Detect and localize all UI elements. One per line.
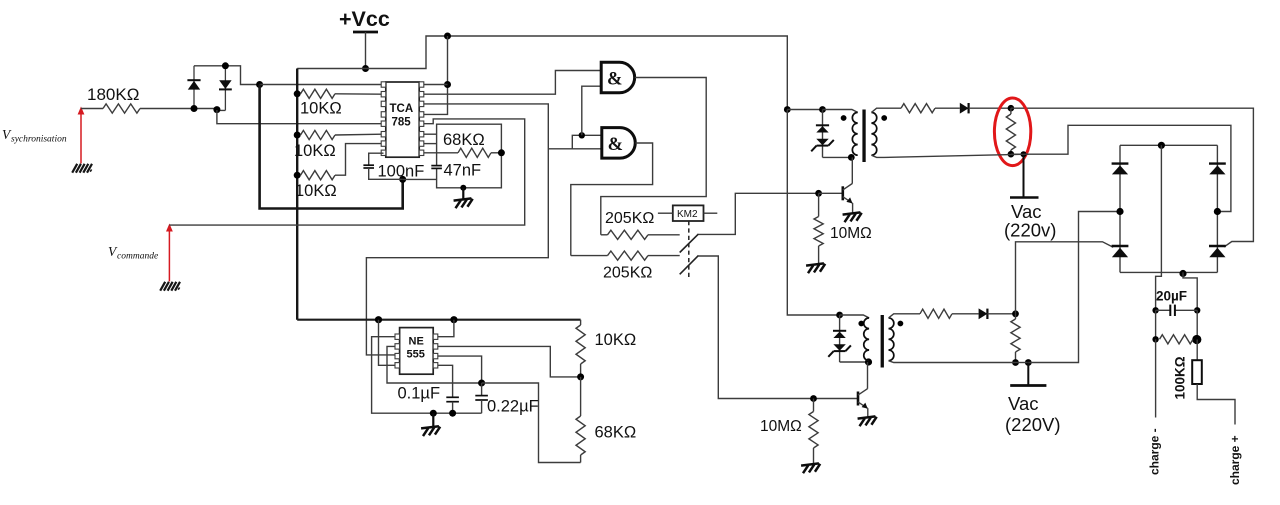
svg-text:KM2: KM2 [677,209,698,220]
wire Vsync to R 180K [81,108,103,110]
svg-text:10MΩ: 10MΩ [830,225,872,242]
node T2 primary top [836,312,843,319]
wire Vcc to TCA pins 1+4 [424,36,448,114]
power +Vcc bar [353,31,378,34]
wire 205K upper leads [601,234,680,236]
wire Vac2 node [1016,362,1029,364]
node bridge bottom tap [1179,270,1186,277]
node 0.1uF ground [449,410,456,417]
diode D4 [979,308,988,319]
svg-text:205KΩ: 205KΩ [605,210,654,227]
thyristor SCR1 bridge BL [1112,246,1129,257]
node +Vcc rail junction [362,65,369,72]
capacitor C 20uF [1156,305,1198,316]
wire bridge right arm [1216,145,1218,272]
wire Q1 emitter stem [852,203,854,213]
node AND2 input1 [579,132,585,138]
svg-text:&: & [607,70,622,90]
diode D1 (up) [187,66,200,109]
label charge + [1228,435,1242,485]
resistor R snubber T1 [1006,108,1015,154]
node bridge top [1158,142,1165,149]
svg-text:20µF: 20µF [1156,289,1187,304]
wire NE555 R1 to Vcc [438,320,454,337]
svg-text:10MΩ: 10MΩ [760,418,802,435]
wire T1 secondary return to bridge [884,154,1029,157]
svg-text:Vac: Vac [1008,393,1039,414]
wire bottom tap to cap right [1183,272,1197,310]
wire Vac2 to bridge left mid [1028,212,1120,363]
red source arrow Vsychronisation [78,107,85,164]
wire KM2 right stub [704,212,718,214]
red source arrow Vcommande [166,224,173,282]
node 10K row2 on trunk [294,132,301,139]
wire T1 secondary top lead [871,108,901,112]
wire AND gate input bridge [582,86,601,135]
resistor R 10K row3 [301,171,336,180]
label 0.1µF [398,385,441,403]
node snubber bottom [1008,151,1015,158]
resistor R 10K row1 [301,89,336,98]
node TCA pin R1 Vcc [444,81,451,88]
wire NE555 L4 to Vcc [379,320,396,366]
node 100nF junction [399,176,406,183]
node 10K row1 on trunk [294,90,301,97]
wire T1 secondary bottom lead [871,155,884,157]
ground (10M lower) [801,463,821,473]
resistor R gate1 series [920,309,952,318]
resistor R 205K lower [608,251,649,260]
node T1 phasing dot left [841,115,847,121]
thyristor SCR2 bridge BR [1209,246,1226,257]
wire Q1 base lead [819,192,843,194]
wire timing net to 68K bottom [482,383,581,463]
wire D3 to snubber [969,107,1011,109]
svg-text:charge -: charge - [1148,428,1162,475]
node D2 bottom junction [213,106,220,113]
label Vcommande [108,244,158,262]
svg-text:10KΩ: 10KΩ [595,331,637,349]
resistor R 68K divider [576,416,585,455]
label 10KΩ row3 [295,182,337,200]
timer U4 NE555 body [395,328,438,375]
suppressor clamp T1 [811,110,834,158]
node T1 phasing dot right [881,115,887,121]
wire 100nF node link [403,178,437,180]
wire Q1 base to 10M [818,193,820,216]
label 68KΩ divider [595,424,637,442]
wire rail to divider 10K [580,320,582,325]
wire ground rail right [433,412,481,414]
label Vsychronisation [2,127,67,145]
svg-text:68KΩ: 68KΩ [595,424,637,442]
resistor R 205K upper [608,230,649,239]
wire charge plus route [1197,384,1235,425]
label 10MΩ upper [830,225,872,242]
label 205KΩ upper [605,210,654,227]
wire T2 primary top lead [840,315,870,318]
wire 68K bottom lead [580,455,582,463]
svg-text:NE: NE [409,336,424,348]
wire SCR1 gate path [1016,242,1114,314]
transformer T2 secondary coil [889,318,894,361]
svg-text:0.1µF: 0.1µF [398,385,441,403]
wire diode top rail [194,66,260,85]
wire bridge left arm [1119,145,1121,272]
label 47nF [444,162,482,180]
wire 20uF left down [1155,310,1157,339]
node Vcc T1 tap [784,106,791,113]
wire net to AND2 input2 [548,148,602,150]
diode D3 [960,103,969,114]
node snubber2 bottom [1012,359,1019,366]
resistor R 100K box [1192,360,1202,384]
wire to diode D3 [935,107,960,109]
svg-text:205KΩ: 205KΩ [603,265,652,282]
svg-text:100KΩ: 100KΩ [1173,356,1188,399]
wire NE555 L2 loop [387,346,482,383]
label Vac (1) [1011,201,1042,222]
wire Q2 collector [867,362,869,389]
label 555 [407,349,425,361]
wire SCR2 gate rail [1011,108,1254,247]
svg-text:0.22µF: 0.22µF [487,398,539,416]
AND gate U3 [602,128,635,159]
wire row2 to TCA pin L6 [335,133,384,136]
label 785 [392,117,412,129]
op-amp U1 TCA785 body [381,82,424,157]
label TCA [390,103,414,115]
node Q1 base [815,190,822,197]
node T2 phasing dot left [858,321,864,327]
wire NE555 L1 to ground rail [372,337,434,414]
svg-text:&: & [608,135,623,155]
wire charge minus column [1155,339,1157,417]
diode D6 bridge TR [1209,164,1226,175]
node timing cap junction [478,380,485,387]
wire Vcc rail to NE555 [297,319,580,321]
node ground rail tap [430,410,437,417]
wire 10M lower to ground [813,448,815,464]
wire 20uF right down [1196,310,1198,339]
wire AND2 input link [572,135,602,149]
capacitor C 100nF [363,165,374,168]
label 180KΩ [87,85,139,104]
transistor Q1 [843,184,853,204]
transistor Q2 [858,389,868,409]
wire AND2 output [571,143,653,256]
wire D4 to snubber2 [987,313,1015,315]
svg-text:68KΩ: 68KΩ [443,131,485,149]
label 100KΩ [1173,356,1188,399]
resistor R 10M upper [814,217,823,247]
wire node to 68K [580,377,582,416]
ground (10M upper) [806,263,826,273]
label 20µF [1156,289,1187,304]
ground (Vsychronisation) [72,164,92,173]
resistor R gate2 series [901,104,935,113]
node bridge left mid [1116,208,1123,215]
node T2 primary bottom [865,358,872,365]
contact blade lower [680,255,699,274]
capacitor C 0.1uF [446,397,459,401]
wire row3 to TCA pin L7 [335,144,384,176]
wire 10M to ground [818,246,820,264]
node diode anode junction [191,105,198,112]
AND gate U2 [601,62,634,93]
resistor R bleed [1160,335,1194,344]
label charge - [1148,428,1162,475]
node 20uF right [1194,307,1200,313]
svg-text:commande: commande [117,252,158,262]
resistor R snubber T2 [1011,314,1020,363]
resistor R 10K row2 [301,130,336,139]
wire 0.22uF top [481,383,483,396]
wire to diode D4 [952,313,979,315]
ground (47nF) [454,198,474,208]
wire thick trunk to 100nF node [260,85,403,209]
transformer T2 core [881,315,884,368]
svg-text:10KΩ: 10KΩ [295,182,337,200]
svg-text:charge +: charge + [1228,435,1242,485]
wire bridge center to cap left [1156,145,1162,310]
node Vac1 tap [1021,151,1027,157]
transformer T1 secondary coil [871,112,876,155]
wire contact upper to Q1 base [699,193,819,234]
node divider mid [577,373,584,380]
wire Vcc down to T2 [787,110,839,316]
wire NE555 ground stem [432,413,434,427]
wire T2 secondary top lead [889,314,921,318]
node bleed right [1192,335,1201,344]
dashed actuator link KM2 [688,221,690,278]
wire Vac1 to bridge right mid [1029,125,1231,211]
wire sync to TCA pin L5 row [217,110,384,124]
node NE555 Vcc pin8 [450,316,457,323]
relay coil KM2 [673,205,704,221]
node T1 primary top [819,106,826,113]
red highlight ellipse [994,98,1030,166]
resistor R 10K divider [576,325,585,364]
svg-text:100nF: 100nF [378,163,425,181]
svg-text:785: 785 [392,117,412,129]
wire TCA R2 to AND1 input1 [424,71,602,95]
svg-text:(220v): (220v) [1004,220,1056,241]
svg-text:+Vcc: +Vcc [339,7,390,31]
wire diode bottom link [194,108,217,110]
node Q2 base [810,395,817,402]
wire TCA pin R1 stub [424,84,448,86]
wire 205K lower leads [571,255,680,257]
svg-text:sychronisation: sychronisation [11,135,67,145]
label 68KΩ [443,131,485,149]
label Vac (2) [1008,393,1039,414]
label (220V) [1005,414,1061,435]
svg-text:10KΩ: 10KΩ [294,142,336,160]
node Vcc clamp junction [256,81,263,88]
resistor R 68K [458,148,491,157]
svg-text:180KΩ: 180KΩ [87,85,139,104]
wire NE555 R4 to 0.1uF [438,365,453,397]
svg-text:47nF: 47nF [444,162,482,180]
wire Vcc tap to T1 [787,109,822,111]
label 205KΩ lower [603,265,652,282]
node 68K right [498,149,505,156]
wire AND1 output [601,78,706,235]
wire 10K to node [580,364,582,377]
node diode top [222,62,229,69]
wire +Vcc stem [365,32,367,69]
ground (Q2 emitter) [858,416,878,426]
label 10KΩ divider [595,331,637,349]
resistor R 180K [103,104,140,113]
wire 47nF box top [437,124,502,188]
ground (NE555) [421,426,441,436]
power Vac1 bar [1010,196,1039,199]
transformer T2 primary coil [864,318,869,361]
wire TCA R7 stub [424,143,437,145]
capacitor C 0.22uF [475,396,488,400]
wire Q2 emitter stem [867,408,869,417]
contact blade upper [680,234,699,253]
wire R 180K to diode node [140,108,194,110]
node T2 phasing dot right [898,321,904,327]
svg-text:(220V): (220V) [1005,414,1061,435]
wire 68K to box [491,152,501,154]
node Vac2 tap [1025,359,1032,366]
wire contact lower to Q2 base [699,256,859,399]
capacitor C 47nF [431,166,442,169]
wire Vcc rail [297,36,787,110]
node bleed left [1152,336,1158,342]
wire T2 secondary bottom lead [889,361,1016,363]
svg-text:555: 555 [407,349,425,361]
wire TCA R8 to 68K [424,152,458,154]
label +Vcc [339,7,390,31]
wire TCA R3 to NE555 pin3 net [366,104,548,355]
wire Q1 collector [851,157,853,183]
wire Q2 base to 10M lower [813,399,815,412]
diode D5 bridge TL [1112,164,1129,175]
label 10KΩ row1 [300,100,342,118]
node snubber2 top [1012,310,1019,317]
ground (Vcommande) [160,282,180,291]
wire Vcc trunk vertical [296,69,298,320]
node snubber top [1008,105,1015,112]
wire T1 primary bottom rail [823,156,852,158]
power Vac2 bar [1010,384,1046,387]
wire 0.1uF to ground rail [452,402,454,414]
label 10KΩ row2 [294,142,336,160]
node 47nF ground tap [460,185,466,191]
wire clamp node to TCA pin L1 [260,84,384,86]
wire bridge top rail [1120,144,1217,146]
node T1 primary bottom [848,154,855,161]
label NE [409,336,424,348]
node NE555 Vcc reset [375,316,382,323]
wire D2 bottom stub [217,109,226,111]
label (220v) [1004,220,1056,241]
node Vcc drop to TCA [444,33,451,40]
resistor R 10M lower [809,412,818,449]
wire to 100K [1196,340,1198,361]
power Vac2 stem [1027,363,1029,386]
node 10K row3 on trunk [294,172,301,179]
wire 100nF to node [369,168,403,179]
transformer T1 core [862,110,865,163]
wire 0.22uF bottom [481,400,483,413]
wire NE555 R2 to divider [438,346,581,377]
ground (Q1 emitter) [843,212,863,222]
suppressor clamp T2 [828,315,851,362]
svg-text:TCA: TCA [390,103,414,115]
wire Vcommande to TCA pin R5 [169,119,524,225]
transformer T1 primary coil [852,112,857,155]
wire 47nF ground stem [462,188,464,199]
wire KM2 left stub [658,212,673,214]
node 20uF left [1152,307,1158,313]
wire Vac1 node [1011,153,1029,155]
wire T2 primary bottom rail [840,361,869,363]
label 0.22µF [487,398,539,416]
diode D2 (down) [219,66,232,111]
wire TCA L8 to 100nF [369,153,384,165]
wire bridge bottom rail [1120,271,1217,273]
power Vac1 stem [1023,154,1025,197]
label 10MΩ lower [760,418,802,435]
wire NE555 R3 to cap node [438,356,482,383]
svg-text:10KΩ: 10KΩ [300,100,342,118]
wire row1 to TCA pin L2 [335,93,384,95]
wire T1 primary top lead [823,110,858,113]
wire TCA R6 stub [424,133,437,135]
label 100nF [378,163,425,181]
node bridge right mid [1214,208,1221,215]
